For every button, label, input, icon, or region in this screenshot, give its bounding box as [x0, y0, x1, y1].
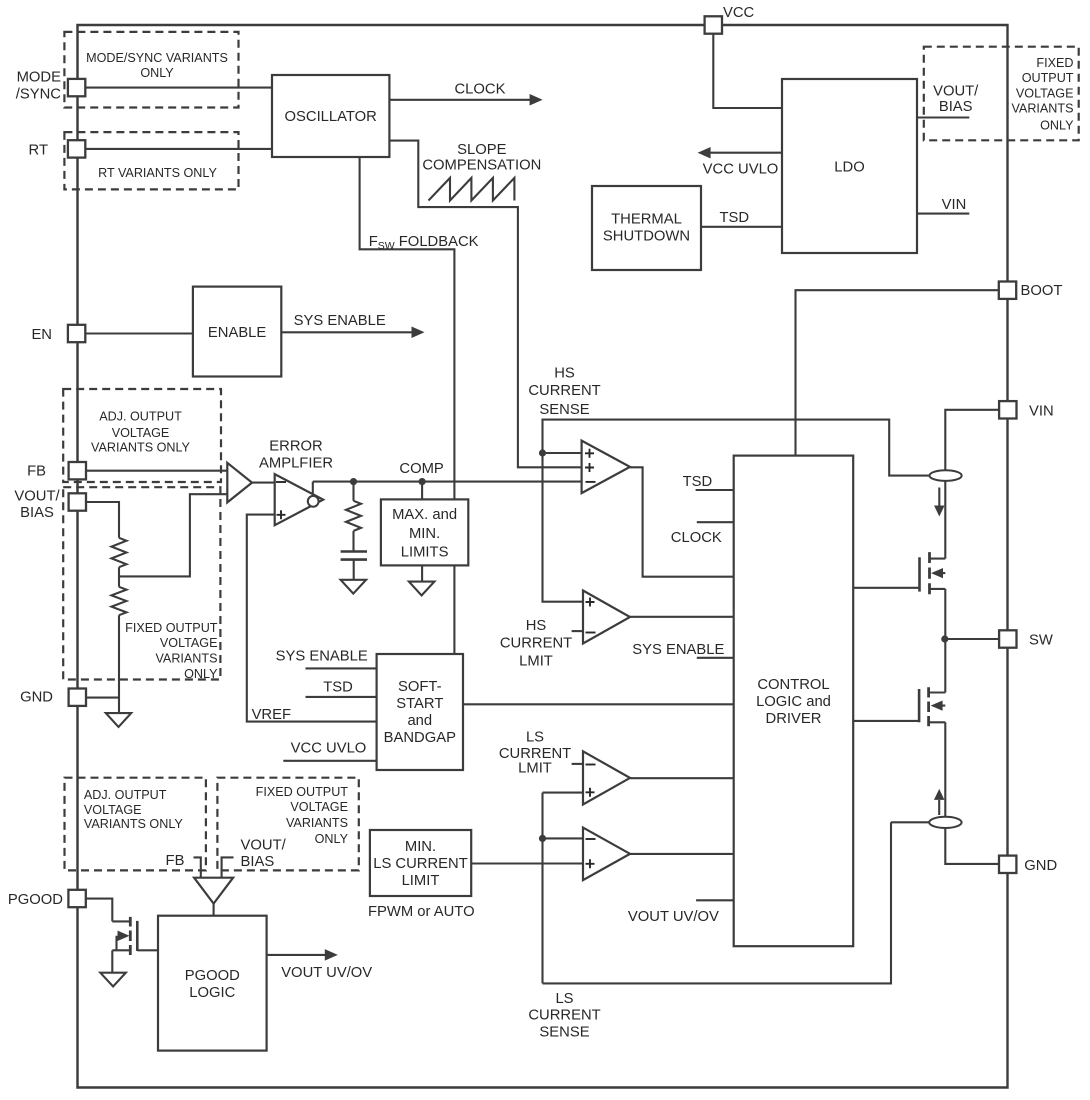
block MIN. LS CURRENT LIMIT — [370, 830, 471, 896]
wire LS FET source through sense to GND pin — [945, 722, 999, 864]
pin RT — [68, 140, 85, 157]
node HS current sense junction — [539, 449, 546, 456]
wire divider lower to GND pin and ground — [86, 576, 119, 713]
wire divider tap to error amplifier buffer — [119, 494, 227, 576]
wire LS comparator junction vertical — [541, 793, 543, 984]
svg-text:TSD: TSD — [683, 474, 713, 490]
wire error amp + input / VREF to soft-start — [247, 515, 377, 722]
svg-text:VIN: VIN — [1029, 404, 1054, 420]
svg-text:COMP: COMP — [399, 461, 444, 477]
transistor Q1 high-side NMOS — [920, 552, 946, 594]
node LS comparator junction — [539, 835, 546, 842]
svg-text:SYS ENABLE: SYS ENABLE — [276, 649, 368, 665]
wire SW node to SW pin — [945, 638, 999, 640]
block MAX and MIN LIMITS — [381, 499, 468, 565]
dashed box FIXED output voltage variants (PGOOD BIAS) — [217, 778, 358, 871]
current sense ellipse LS — [929, 817, 961, 828]
wire HS gate drive from control logic — [853, 587, 919, 589]
block PGOOD LOGIC — [158, 916, 267, 1051]
wire VCC pin down to LDO — [713, 33, 782, 108]
pin PGOOD — [68, 890, 85, 907]
transistor Q3 PGOOD pull-down NMOS — [112, 917, 137, 955]
dashed box FIXED output voltage variants (divider) — [63, 487, 220, 679]
svg-text:VCC UVLO: VCC UVLO — [291, 740, 367, 756]
svg-text:TSD: TSD — [323, 679, 353, 695]
wire PWM comparator output to control logic — [630, 467, 734, 576]
arrowhead VOUT UV/OV — [325, 949, 338, 961]
svg-text:GND: GND — [20, 690, 53, 706]
wire soft-start output to control logic — [463, 703, 734, 705]
pin MODE/SYNC — [68, 79, 85, 96]
svg-text:SYS ENABLE: SYS ENABLE — [632, 642, 724, 658]
svg-text:ERRORAMPLFIER: ERRORAMPLFIER — [259, 438, 333, 471]
wire VOUT UV/OV input to control logic — [696, 899, 734, 901]
wire VOUT/BIAS from LDO right — [917, 116, 969, 118]
wire FB hook to selector triangle — [194, 857, 201, 877]
LS limit + sign — [586, 788, 595, 797]
wire COMP rail — [313, 481, 582, 483]
svg-text:CONTROLLOGIC andDRIVER: CONTROLLOGIC andDRIVER — [756, 677, 831, 727]
wire VIN from LDO right — [917, 213, 969, 215]
capacitor C compensation — [341, 552, 367, 560]
wire HS current sense line — [543, 420, 930, 476]
block OSCILLATOR — [272, 75, 389, 157]
svg-text:OSCILLATOR: OSCILLATOR — [285, 109, 377, 125]
svg-text:VOUT UV/OV: VOUT UV/OV — [281, 965, 372, 981]
wire HS current limit comparator output — [630, 616, 734, 618]
ground under compensation RC — [341, 580, 367, 594]
wire VIN rail to HS FET — [945, 410, 999, 559]
block CONTROL LOGIC and DRIVER — [734, 456, 854, 947]
svg-text:RT VARIANTS ONLY: RT VARIANTS ONLY — [98, 166, 217, 180]
wire LS current sense return — [543, 822, 930, 983]
wire LS current limit comparator + input — [543, 792, 584, 794]
wire RT pin to oscillator — [85, 148, 272, 150]
dashed box MODE/SYNC variants only — [64, 32, 238, 108]
wire PGOOD FET gate to PGOOD logic — [137, 949, 158, 951]
transistor Q2 low-side NMOS — [919, 687, 945, 726]
wire TSD thermal shutdown to LDO — [701, 226, 782, 228]
wire CLOCK oscillator output — [389, 99, 531, 101]
sawtooth slope compensation waveform — [429, 178, 515, 201]
wire error amp output up to COMP rail — [312, 482, 314, 497]
wire EN pin to enable block — [85, 332, 193, 334]
block THERMAL SHUTDOWN — [592, 186, 701, 270]
arrowhead LS current up — [934, 789, 945, 800]
pin VOUT/BIAS (left) — [69, 493, 86, 510]
wire HS current limit comparator - stub — [572, 630, 583, 632]
wire BOOT to control logic — [796, 290, 1000, 455]
ground under MAX/MIN limits — [409, 582, 435, 596]
block LDO — [782, 79, 917, 253]
resistor R2 internal divider lower — [112, 587, 127, 615]
svg-text:MODE/SYNC: MODE/SYNC — [16, 70, 62, 103]
svg-text:VOUT/BIAS: VOUT/BIAS — [933, 84, 979, 116]
svg-text:FPWM or AUTO: FPWM or AUTO — [368, 904, 475, 920]
block SOFT-START and BANDGAP — [377, 654, 463, 770]
PWM comparator - sign — [586, 481, 596, 483]
current direction arrow HS (down) — [938, 488, 940, 507]
node SW — [941, 635, 948, 642]
pin BOOT — [999, 282, 1016, 299]
buffer amplifier (FB selector to error amp) — [227, 463, 252, 503]
PWM comparator + sign 1 — [585, 449, 594, 458]
wire SYS ENABLE to soft-start — [306, 667, 377, 669]
svg-text:FB: FB — [166, 853, 185, 869]
dashed box ADJ output voltage variants (FB) — [63, 389, 221, 482]
wire HS sense to PWM comparator + input — [543, 452, 582, 454]
resistor R compensation — [346, 501, 361, 531]
pin GND (right) — [999, 856, 1016, 873]
pin EN — [68, 325, 85, 342]
wire VCC UVLO from LDO (arrow left) — [702, 152, 782, 154]
wire MODE/SYNC pin to oscillator — [85, 87, 272, 89]
wire LS current limit comparator - stub — [572, 763, 583, 765]
wire HS FET source to SW node — [944, 589, 946, 639]
comparator PWM (HS current sense) — [582, 441, 630, 494]
wire Fsw foldback from oscillator to MAX/MIN limits and soft-start — [360, 157, 455, 654]
svg-text:VIN: VIN — [942, 197, 967, 213]
svg-text:GND: GND — [1024, 858, 1057, 874]
error amp output bubble — [308, 496, 319, 507]
pin SW — [999, 630, 1016, 647]
min LS - sign — [586, 838, 596, 840]
pin VCC — [705, 16, 722, 33]
wire FB pin to error amplifier buffer — [86, 470, 227, 472]
wire CLOCK input to control logic — [697, 521, 734, 523]
error amp + sign — [277, 510, 286, 519]
wire left border segment through dashed box — [76, 25, 78, 1088]
wire min LS comparator - input from junction — [543, 837, 584, 839]
node COMP rail / MAX-MIN branch — [419, 478, 426, 485]
svg-text:TSD: TSD — [719, 210, 749, 226]
svg-text:PGOOD: PGOOD — [8, 892, 63, 908]
svg-text:PGOODLOGIC: PGOODLOGIC — [185, 968, 240, 1001]
svg-text:VCC: VCC — [723, 5, 755, 21]
svg-text:FB: FB — [27, 463, 46, 479]
pin VIN — [999, 401, 1016, 418]
svg-text:BOOT: BOOT — [1021, 283, 1063, 299]
wire SYS ENABLE input to control logic — [697, 657, 734, 659]
wire VOUT/BIAS pin to internal divider — [87, 502, 119, 538]
wire TSD input to control logic — [696, 489, 734, 491]
ground under divider — [106, 713, 131, 727]
svg-text:VOUT UV/OV: VOUT UV/OV — [628, 909, 719, 925]
wire min LS current limit box output to comparator + — [471, 862, 583, 864]
wire LS gate drive from control logic — [853, 720, 919, 722]
svg-text:CLOCK: CLOCK — [671, 530, 722, 546]
wire SYS ENABLE from enable block (arrow) — [281, 331, 413, 333]
ground under PGOOD FET — [100, 973, 126, 987]
arrowhead CLOCK — [530, 94, 543, 106]
wire PGOOD FET source to ground — [111, 950, 113, 972]
wire MAX/MIN limits branch — [421, 482, 423, 582]
pin GND (left) — [69, 689, 86, 706]
resistor R1 internal divider upper — [112, 538, 127, 567]
svg-text:VCC UVLO: VCC UVLO — [703, 162, 779, 178]
current direction arrow LS (up) — [938, 800, 940, 815]
wire LS current limit comparator output — [630, 777, 734, 779]
error amp - sign — [276, 481, 286, 483]
dashed box ADJ output voltage variants (PGOOD FB) — [65, 778, 206, 871]
svg-text:EN: EN — [31, 327, 52, 343]
svg-text:THERMALSHUTDOWN: THERMALSHUTDOWN — [603, 211, 690, 244]
comparator LS current limit — [583, 751, 630, 804]
PWM comparator + sign 2 — [585, 463, 594, 472]
arrowhead VCC UVLO — [698, 147, 711, 159]
pin FB — [69, 462, 86, 479]
wire selector triangle to PGOOD logic — [213, 904, 215, 916]
node COMP rail / RC branch — [350, 478, 357, 485]
wire HS sense down to HS current limit comparator — [543, 453, 584, 602]
comparator HS current limit — [583, 591, 630, 644]
wire COMP RC branch — [352, 482, 354, 580]
wire VCC UVLO to soft-start — [283, 760, 376, 762]
svg-text:VREF: VREF — [252, 707, 291, 723]
wire PGOOD pin to pull-down FET drain — [86, 899, 113, 922]
wire PGOOD logic VOUT UV/OV output — [267, 954, 326, 956]
svg-text:ENABLE: ENABLE — [208, 325, 267, 341]
block ENABLE — [193, 287, 281, 377]
arrowhead HS current down — [934, 506, 945, 517]
wire min LS comparator output — [630, 853, 734, 855]
svg-text:SW: SW — [1029, 633, 1053, 649]
wire TSD to soft-start — [306, 696, 377, 698]
comparator min LS current limit — [583, 828, 630, 881]
dashed box RT variants only — [64, 132, 238, 189]
dashed box FIXED output voltage variants (VOUT/BIAS top right) — [924, 47, 1079, 141]
arrowhead SYS ENABLE — [412, 327, 425, 339]
wire VOUT/BIAS hook to selector triangle — [222, 857, 234, 877]
wire buffer output to error amp inverting input — [252, 482, 275, 484]
svg-text:LDO: LDO — [834, 159, 864, 175]
svg-text:CLOCK: CLOCK — [455, 81, 506, 97]
svg-text:SYS ENABLE: SYS ENABLE — [294, 313, 386, 329]
HS limit + sign — [586, 598, 595, 607]
min LS + sign — [586, 859, 595, 868]
op-amp U1 error amplifier — [275, 474, 324, 525]
svg-text:RT: RT — [29, 142, 48, 158]
current sense ellipse HS — [930, 470, 962, 481]
HS limit - sign — [586, 632, 596, 634]
svg-text:VOUT/BIAS: VOUT/BIAS — [14, 489, 60, 521]
wire SW node to LS FET drain — [944, 639, 946, 693]
wire slope compensation from oscillator to PWM comparator — [389, 141, 581, 468]
selector triangle (PGOOD FB mux, points down) — [194, 878, 233, 904]
LS limit - sign — [586, 764, 596, 766]
